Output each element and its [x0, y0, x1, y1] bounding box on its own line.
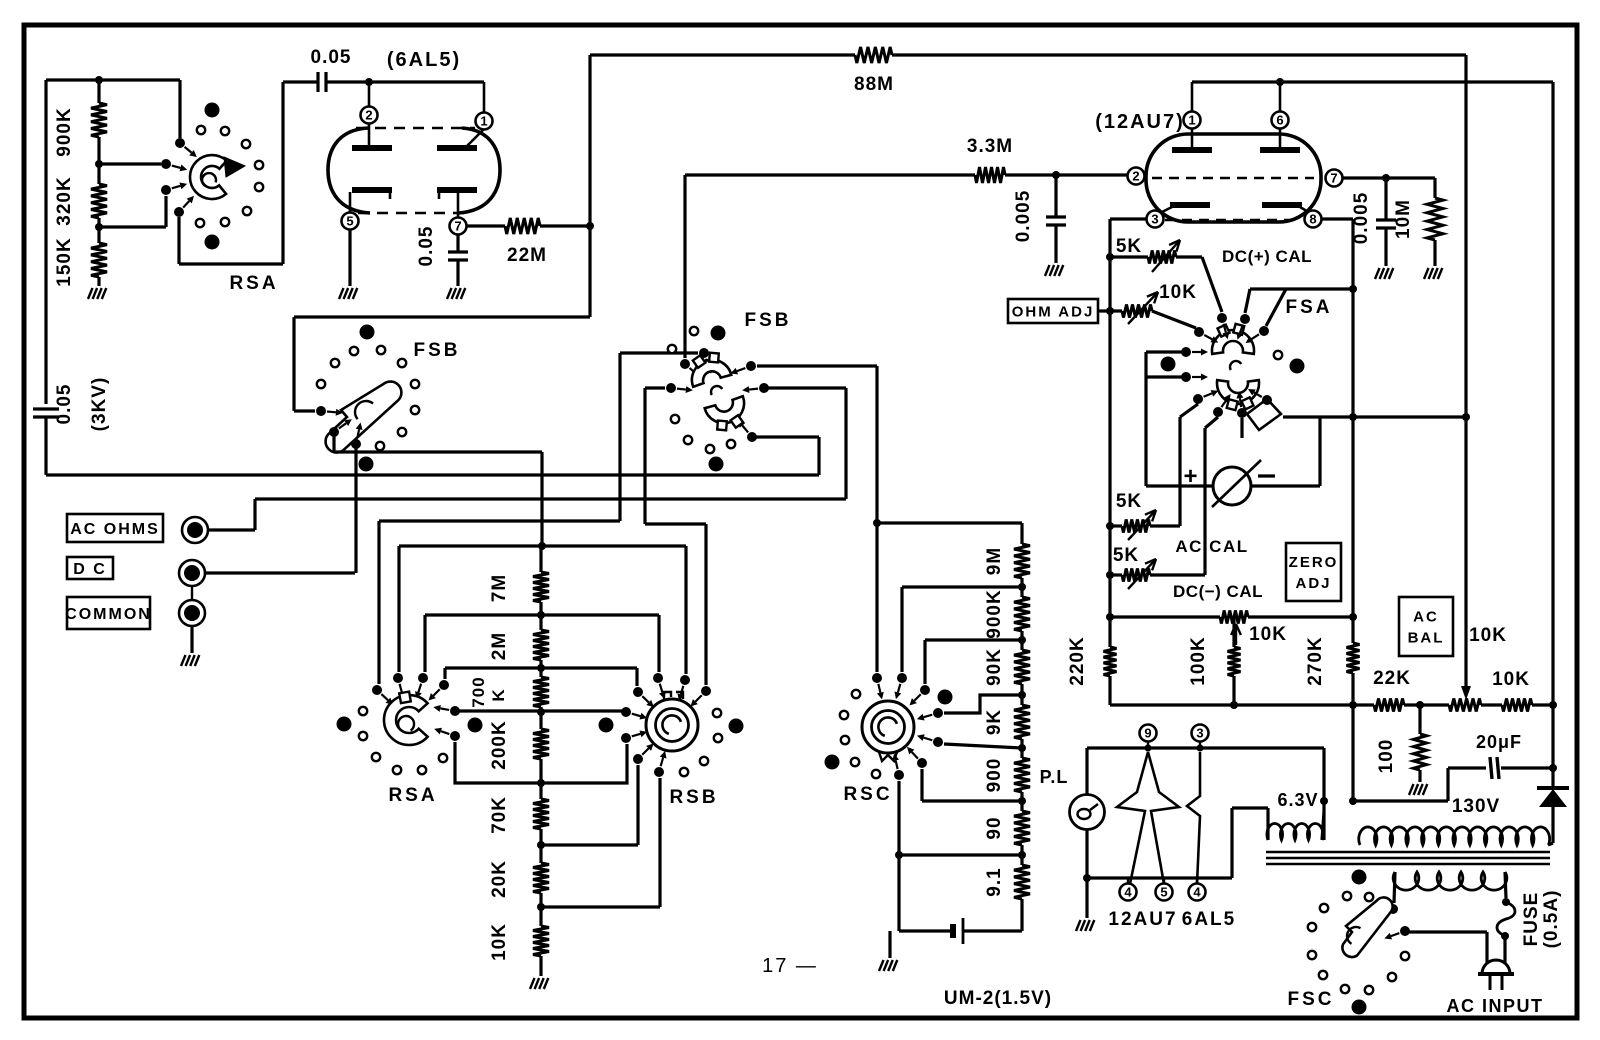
svg-text:DC(+) CAL: DC(+) CAL	[1222, 247, 1312, 266]
D C label box	[67, 557, 113, 579]
svg-text:4: 4	[1193, 885, 1201, 900]
resistor 700K	[539, 668, 542, 677]
12AU7 plate 2	[1260, 147, 1300, 153]
pin 8 wire to right rail	[1322, 217, 1353, 220]
resistor 88M	[590, 53, 855, 56]
RSC branch 2	[1018, 636, 1026, 644]
capacitor 0.05 coupling	[316, 72, 319, 92]
rail x1553 vertical	[1551, 82, 1554, 704]
lamp ground	[1085, 878, 1088, 918]
wire AC OHMS to FSB2	[844, 388, 847, 499]
12AU7 dashed internals	[1152, 177, 1314, 179]
svg-text:88M: 88M	[854, 74, 894, 95]
wire D	[456, 709, 622, 712]
3.3M rail down to FSB2	[683, 175, 686, 358]
pin 7	[450, 218, 467, 235]
wire 3.3M input	[685, 173, 975, 176]
rotary switch RSB rotor	[646, 699, 698, 751]
ground 0.005 right	[1375, 268, 1380, 279]
ground below 150K	[88, 288, 93, 299]
svg-text:17 —: 17 —	[762, 955, 818, 977]
wire W5 RSA-RSB top	[399, 544, 686, 547]
pin 7	[1326, 170, 1343, 187]
svg-text:FSC: FSC	[1288, 989, 1335, 1010]
COMMON label box	[67, 597, 150, 629]
resistor 9M	[1014, 544, 1030, 578]
svg-text:9.1: 9.1	[984, 867, 1005, 896]
svg-text:(0.5A): (0.5A)	[1541, 890, 1562, 949]
wire FSB2 to RSC rail	[757, 364, 877, 367]
pin 4 heater left	[1120, 884, 1137, 901]
potentiometer 10K ohm adjust	[1098, 309, 1122, 312]
wire W7	[445, 666, 637, 669]
pin 4 heater right	[1189, 884, 1206, 901]
svg-text:5K: 5K	[1116, 236, 1142, 257]
svg-text:5K: 5K	[1116, 491, 1142, 512]
pin 7 wire right	[1343, 176, 1435, 179]
svg-text:1: 1	[1188, 113, 1195, 128]
svg-text:2: 2	[365, 108, 372, 123]
FSC ring contacts	[1343, 892, 1351, 900]
wire left vertical rail	[44, 80, 47, 404]
pilot lamp P.L	[1085, 748, 1088, 795]
capacitor 20uF	[1448, 766, 1486, 769]
node 22M to rail	[586, 222, 594, 230]
RSC wiper to battery	[1018, 851, 1026, 859]
node 0.005 left	[1052, 171, 1060, 179]
pin 1	[1184, 112, 1201, 129]
svg-text:5K: 5K	[1113, 545, 1139, 566]
capacitor 0.05 3KV	[33, 407, 59, 410]
resistor 150K	[91, 243, 107, 277]
right rail x1353	[1351, 219, 1354, 643]
svg-text:5: 5	[346, 214, 353, 229]
RSA rotor	[190, 155, 227, 199]
rotary switch RSC rotor	[862, 701, 914, 753]
meter M1	[1213, 467, 1251, 505]
wire G	[541, 905, 660, 908]
svg-text:0.05: 0.05	[54, 384, 75, 425]
ground 100	[1409, 784, 1414, 795]
svg-text:10K: 10K	[1249, 624, 1287, 645]
RSC rail x877	[875, 366, 878, 672]
wire 5K to FSA contact	[1202, 257, 1222, 312]
node 100 ohm	[1416, 701, 1424, 709]
svg-text:8: 8	[1309, 212, 1316, 227]
resistor 270K	[1347, 643, 1360, 673]
RSC branch 4	[1018, 744, 1026, 752]
node 7M/2M	[537, 611, 545, 619]
AC BAL wiper arrowhead	[1461, 686, 1471, 700]
wire fuse to plug	[1503, 936, 1506, 966]
battery UM-2 1.5V	[963, 929, 1022, 932]
node top of divider	[95, 76, 103, 84]
FSB2 index dots	[711, 326, 726, 341]
node cap to 6AL5	[365, 78, 373, 86]
resistor 9.1	[1020, 855, 1023, 865]
wire 10K to FSA contact	[1152, 311, 1196, 328]
heater bottom wire	[1087, 876, 1232, 879]
pin 3	[1147, 211, 1164, 228]
svg-text:20μF: 20μF	[1476, 732, 1522, 752]
left rail x1110	[1108, 219, 1111, 647]
wire W6	[425, 613, 659, 616]
6AL5 cathode 1 (pin 5)	[352, 187, 392, 193]
svg-text:10K: 10K	[1469, 625, 1507, 646]
RSB ring contacts	[713, 709, 721, 717]
svg-text:100: 100	[1376, 739, 1397, 774]
pin 9	[1140, 725, 1157, 742]
svg-text:DC(−) CAL: DC(−) CAL	[1173, 582, 1263, 601]
svg-text:AC INPUT: AC INPUT	[1447, 996, 1544, 1016]
svg-text:22M: 22M	[507, 245, 547, 266]
chain node top	[538, 542, 546, 550]
svg-text:900K: 900K	[984, 589, 1005, 638]
FSA feed wire y289	[1349, 285, 1357, 293]
resistor 22K	[1374, 699, 1404, 712]
pin 1	[476, 113, 493, 130]
svg-text:3: 3	[1151, 212, 1158, 227]
OHM ADJ box	[1008, 299, 1098, 323]
svg-text:70K: 70K	[489, 796, 510, 834]
transformer 6.3V winding	[1232, 806, 1268, 809]
FSA left contact link	[1146, 350, 1186, 353]
svg-text:150K: 150K	[54, 237, 75, 286]
stub contact	[1240, 418, 1243, 438]
svg-text:K: K	[489, 688, 508, 701]
svg-text:0.05: 0.05	[311, 47, 352, 68]
svg-text:RSA: RSA	[388, 785, 437, 806]
svg-text:9K: 9K	[984, 709, 1005, 735]
capacitor 0.05 at pin 7	[456, 235, 459, 251]
potentiometer 10K AC BAL	[1449, 699, 1481, 712]
pin 2	[1128, 168, 1145, 185]
svg-text:0.005: 0.005	[1013, 190, 1034, 243]
svg-text:20K: 20K	[489, 860, 510, 898]
wire E	[455, 742, 627, 783]
resistor 22M	[467, 224, 505, 227]
svg-text:RSC: RSC	[843, 784, 892, 805]
pin 8	[1305, 211, 1322, 228]
svg-text:9M: 9M	[984, 547, 1005, 575]
node right rail bottom	[1549, 701, 1557, 709]
battery ground	[888, 931, 891, 958]
rail to capacitor	[1551, 705, 1554, 768]
FSB1 bottom wire to chain	[332, 432, 335, 452]
wire AC OHMS	[208, 528, 255, 531]
svg-text:100K: 100K	[1188, 636, 1209, 685]
wire FSA to meter plus	[1144, 352, 1147, 486]
wire meter minus side	[1251, 484, 1320, 487]
potentiometer 5K AC CAL	[1106, 522, 1114, 530]
svg-text:700: 700	[469, 676, 488, 707]
AC OHMS label box	[67, 514, 163, 542]
12AU7 cathode 1	[1170, 202, 1210, 208]
12AU7 cathode 2	[1262, 202, 1302, 208]
6AL5 heater element	[1187, 752, 1200, 884]
FSC rotor	[1342, 897, 1392, 957]
RSC ring contacts	[852, 690, 860, 698]
svg-text:12AU7: 12AU7	[1108, 909, 1177, 930]
svg-text:22K: 22K	[1373, 668, 1411, 689]
FSB1 ring contacts	[350, 347, 358, 355]
RSC index dots	[825, 755, 840, 770]
svg-text:7: 7	[1330, 171, 1337, 186]
rail from 88M down to FSA/AC-BAL	[1464, 55, 1467, 688]
resistor 100	[1418, 705, 1421, 734]
capacitor 0.005 right	[1384, 178, 1387, 219]
pin 5 heater	[1156, 884, 1173, 901]
FSC index dots	[1352, 870, 1367, 885]
6AL5 dashed internals	[356, 127, 475, 130]
FSB1 rotor	[326, 382, 402, 453]
wire 3KV cap to FSB2	[46, 473, 819, 476]
FSB2 contact to RSB	[666, 383, 676, 393]
resistor 10K right	[1502, 699, 1532, 712]
svg-text:OHM ADJ: OHM ADJ	[1012, 303, 1095, 320]
pin 2	[361, 107, 378, 124]
RSA main ring contacts	[359, 707, 367, 715]
rotary switch FSB1	[294, 409, 315, 412]
svg-text:FSB: FSB	[745, 310, 792, 331]
svg-text:ZERO: ZERO	[1289, 554, 1339, 571]
svg-text:+: +	[1183, 463, 1198, 490]
resistor 10K chain	[539, 907, 542, 926]
wire FSA pointer to 88M rail	[1283, 415, 1466, 418]
RSC branch 1	[1018, 583, 1026, 591]
node 2M/700K	[537, 664, 545, 672]
svg-text:270K: 270K	[1305, 636, 1326, 685]
10K wiper arrow	[1235, 624, 1237, 645]
svg-text:200K: 200K	[489, 720, 510, 769]
FSA rotor pointer	[1247, 399, 1281, 430]
ground 0.005 left	[1045, 265, 1050, 276]
svg-text:UM-2(1.5V): UM-2(1.5V)	[944, 988, 1052, 1009]
chain top wire	[877, 521, 1022, 524]
svg-text:AC: AC	[1413, 608, 1439, 625]
wire FSA to DC- CAL pot	[1205, 417, 1218, 428]
resistor 900K	[97, 80, 100, 103]
svg-text:1: 1	[480, 114, 487, 129]
svg-text:ADJ: ADJ	[1295, 575, 1331, 592]
svg-text:10K: 10K	[1492, 669, 1530, 690]
svg-text:P.L: P.L	[1040, 767, 1069, 787]
wire DC	[205, 571, 355, 574]
primary left lead to FSC	[1394, 872, 1395, 903]
svg-text:900K: 900K	[54, 107, 75, 156]
wire to RSA contact 1	[99, 162, 161, 165]
diode rectifier	[1551, 768, 1554, 788]
svg-text:3: 3	[1196, 726, 1203, 741]
wire RSA bottom to right edge	[179, 262, 283, 265]
terminal DC	[179, 560, 205, 586]
resistor 900	[1020, 748, 1023, 758]
svg-text:9: 9	[1144, 726, 1151, 741]
node 320K/150K	[95, 223, 103, 231]
svg-text:4: 4	[1124, 885, 1132, 900]
RSB index dots	[599, 718, 614, 733]
FSA rotor lower	[1217, 380, 1259, 404]
pin 7 ground	[447, 288, 452, 299]
node 200K/70K	[537, 779, 545, 787]
transformer primary winding	[1393, 872, 1507, 890]
6AL5 plate 1 (pin 2)	[352, 145, 392, 151]
6AL5 cathode 2 (pin 7)	[437, 187, 477, 193]
wire y617 with 10K pot	[1106, 613, 1114, 621]
FSB2 ring contacts	[690, 327, 698, 335]
node 20K/10K	[537, 903, 545, 911]
ground 10M	[1424, 268, 1429, 279]
FSA bottom contacts	[1193, 394, 1203, 404]
svg-text:(12AU7): (12AU7)	[1095, 111, 1185, 133]
svg-text:220K: 220K	[1067, 636, 1088, 685]
svg-text:3.3M: 3.3M	[967, 136, 1013, 157]
potentiometer 5K DC+ CAL	[1106, 253, 1114, 261]
resistor 20K	[539, 845, 542, 863]
wire top-left horizontal	[46, 78, 180, 81]
AC BAL box	[1399, 597, 1453, 656]
wire 20uF to heater node	[1446, 768, 1449, 801]
pin 5	[342, 213, 359, 230]
RSA ring contacts	[197, 126, 205, 134]
FSB1 to DC terminal wire	[354, 444, 357, 573]
ZERO ADJ box	[1286, 543, 1341, 601]
rotary switch RSA main rotor	[384, 695, 428, 745]
rotary switch RSA (range A input)	[175, 138, 185, 148]
svg-text:(6AL5): (6AL5)	[387, 49, 461, 71]
svg-text:10K: 10K	[489, 923, 510, 961]
FSB1 box top wire	[294, 315, 590, 318]
wire y705 bottom bus	[1110, 703, 1374, 706]
svg-text:AC OHMS: AC OHMS	[70, 521, 160, 538]
resistor 90K	[1020, 640, 1023, 650]
rail x590 vertical	[588, 55, 591, 317]
wire FSC to plug	[1405, 930, 1487, 933]
terminal COMMON	[179, 600, 205, 626]
svg-text:6.3V: 6.3V	[1277, 790, 1318, 810]
resistor 220K	[1104, 647, 1117, 676]
svg-text:(3KV): (3KV)	[89, 377, 110, 432]
RSA index dots	[205, 103, 220, 118]
resistor 70K	[539, 783, 542, 799]
heater top wire	[1087, 746, 1324, 749]
chain ground	[530, 978, 535, 989]
junction 88M rail with FSA wire	[1462, 413, 1470, 421]
svg-text:90K: 90K	[984, 648, 1005, 686]
svg-text:320K: 320K	[54, 176, 75, 225]
node 70K/20K	[537, 841, 545, 849]
pin 6	[1272, 112, 1289, 129]
svg-text:7M: 7M	[489, 574, 510, 602]
wire to RSA contact 2	[99, 225, 166, 228]
node 700K/200K	[537, 708, 545, 716]
svg-text:90: 90	[984, 816, 1005, 839]
transformer core	[1266, 851, 1550, 853]
svg-text:BAL: BAL	[1408, 629, 1445, 646]
svg-text:2: 2	[1132, 169, 1139, 184]
resistor 900K r	[1020, 587, 1023, 597]
svg-text:7: 7	[454, 219, 461, 234]
FSB2 top feed	[620, 351, 698, 354]
svg-text:6AL5: 6AL5	[1182, 909, 1236, 930]
wire FSA to AC CAL pot	[1180, 404, 1198, 417]
tube 6AL5 envelope	[328, 128, 370, 213]
FSA rotor upper	[1212, 330, 1254, 354]
resistor 100K	[1232, 617, 1235, 647]
svg-text:900: 900	[984, 758, 1005, 793]
AC plug	[1482, 960, 1510, 974]
svg-text:130V: 130V	[1452, 796, 1500, 817]
12AU7 heater element	[1117, 752, 1148, 884]
RSC branch 3	[1018, 691, 1026, 699]
RSC branch 5	[1018, 797, 1026, 805]
resistor 10M	[1433, 178, 1436, 198]
wire F	[541, 843, 638, 846]
rotary switch FSB2 rotor	[692, 360, 731, 387]
svg-text:6: 6	[1276, 113, 1283, 128]
tube 12AU7 envelope	[1146, 134, 1321, 222]
rotary switch FSC	[1388, 904, 1398, 914]
plate supply wire	[1192, 80, 1553, 83]
COMMON ground	[190, 626, 193, 653]
pin 3 wire to left rail	[1110, 217, 1147, 220]
primary right lead to fuse	[1505, 872, 1506, 898]
svg-text:FSB: FSB	[414, 340, 461, 361]
wire meter plus side	[1146, 484, 1213, 487]
svg-text:2M: 2M	[489, 632, 510, 660]
svg-text:D C: D C	[73, 561, 107, 578]
resistor 200K	[539, 712, 542, 729]
6AL5 plate 2 (pin 1)	[437, 145, 477, 151]
FSB1 index dots	[360, 325, 375, 340]
lamp bottom wire	[1085, 829, 1088, 878]
12AU7 plate 1	[1172, 147, 1212, 153]
svg-text:FSA: FSA	[1286, 297, 1333, 318]
resistor 9K	[1020, 695, 1023, 705]
svg-text:COMMON: COMMON	[65, 606, 152, 623]
wire RSA contact from top	[178, 80, 181, 138]
terminal AC OHMS	[182, 517, 208, 543]
resistor 2M	[539, 615, 542, 630]
RSA main index dots	[337, 717, 352, 732]
capacitor 0.005 left	[1054, 175, 1057, 216]
resistor 3.3M	[975, 167, 1005, 183]
pin 5 ground	[348, 230, 351, 286]
svg-text:10M: 10M	[1393, 199, 1414, 239]
svg-text:RSA: RSA	[229, 273, 278, 294]
transformer secondary 130V winding	[1359, 827, 1550, 845]
svg-text:AC CAL: AC CAL	[1175, 537, 1248, 556]
resistor 90	[1020, 801, 1023, 811]
potentiometer 5K DC- CAL	[1106, 571, 1114, 579]
svg-text:RSB: RSB	[669, 787, 718, 808]
svg-text:0.05: 0.05	[416, 226, 437, 267]
fuse 0.5A	[1497, 902, 1515, 936]
resistor 7M	[539, 546, 542, 572]
FSA index dots	[1161, 357, 1176, 372]
svg-text:FUSE: FUSE	[1521, 892, 1542, 947]
pin 3 heater	[1192, 725, 1209, 742]
svg-text:5: 5	[1160, 885, 1167, 900]
node 900K/320K	[95, 160, 103, 168]
FSB2 left rail	[618, 353, 621, 521]
resistor 320K	[97, 164, 100, 184]
svg-text:10K: 10K	[1159, 282, 1197, 303]
